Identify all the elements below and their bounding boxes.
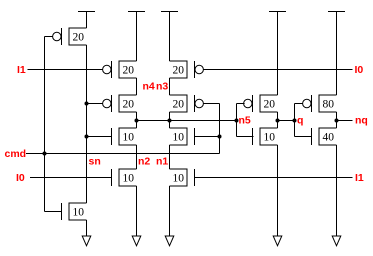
junction cmd with gate feed — [43, 152, 47, 156]
wire node n3 (M7 to M8) — [169, 78, 171, 95]
svg-text:n4: n4 — [143, 81, 155, 93]
junction cmd riser to M9 gate — [218, 135, 222, 139]
wire n5 to M12 gate — [237, 136, 254, 138]
svg-text:40: 40 — [323, 132, 335, 144]
wire M10 gate to I1 (right) — [195, 177, 353, 179]
junction sn to M4 gate — [85, 102, 89, 106]
wire M12 source to ground — [277, 145, 279, 236]
vdd rail supply (column 4) — [269, 11, 286, 13]
vdd rail supply (left inverter) — [78, 11, 95, 13]
junction q at gate feed — [293, 119, 297, 123]
pmos M1 w=20 (cmd inverter pull-up) — [53, 28, 87, 45]
wire M14 source to ground — [336, 145, 338, 236]
wire input I1 to M3 gate bubble — [28, 69, 103, 71]
ground (column 5) — [332, 236, 341, 246]
wire vdd to M1 drain — [86, 12, 88, 29]
pmos M8 w=20 gate cmd — [170, 95, 204, 112]
wire vdd to M11 drain — [277, 12, 279, 96]
svg-text:I0: I0 — [355, 64, 364, 76]
svg-text:20: 20 — [173, 99, 185, 111]
nmos M14 w=40 gate q — [312, 128, 337, 145]
svg-text:10: 10 — [123, 173, 135, 185]
ground (column 2) — [132, 236, 141, 246]
wire M10 source to ground — [169, 186, 171, 236]
svg-text:I0: I0 — [16, 172, 25, 184]
wire cmd to M1 gate bubble — [45, 36, 53, 38]
wire node nq horizontal — [337, 120, 353, 122]
svg-text:10: 10 — [173, 173, 185, 185]
pmos M13 w=80 gate q — [303, 95, 337, 112]
junction n5 at gate feed — [235, 119, 239, 123]
wire cmd riser vertical — [219, 104, 221, 154]
pmos M11 w=20 gate n5 — [244, 95, 278, 112]
wire q to M14 gate — [295, 136, 312, 138]
svg-text:20: 20 — [73, 32, 85, 44]
svg-text:I1: I1 — [355, 172, 364, 184]
nmos M5 w=10 gate sn — [112, 128, 137, 145]
svg-text:10: 10 — [73, 207, 85, 219]
wire node q horizontal — [278, 120, 295, 122]
wire M8 to node n5 junction — [169, 112, 171, 128]
wire cmd riser to M9 gate — [195, 136, 220, 138]
wire M7 gate bubble to I0 (right) — [203, 69, 352, 71]
wire sn to M4 gate bubble — [87, 103, 103, 105]
wire M8 gate bubble to cmd riser — [203, 103, 219, 105]
wire n5 gate feed vertical — [236, 104, 238, 137]
wire node n2 (M5 to M6) — [136, 145, 138, 169]
svg-text:20: 20 — [123, 65, 135, 77]
pmos M4 w=20 gate sn — [103, 95, 137, 112]
pmos M3 w=20 gate I1 — [103, 61, 137, 78]
wire M4 to node n5 junction — [136, 112, 138, 128]
svg-text:80: 80 — [323, 99, 335, 111]
svg-text:n3: n3 — [156, 81, 168, 93]
wire node n4 (M3 to M4) — [136, 78, 138, 95]
svg-text:n2: n2 — [138, 156, 150, 168]
svg-text:q: q — [297, 115, 303, 127]
ground (column 4) — [273, 236, 282, 246]
junction q at column 4 — [276, 119, 280, 123]
wire vdd to M3 drain — [136, 12, 138, 62]
nmos M12 w=10 gate n5 — [253, 128, 278, 145]
vdd rail supply (column 5) — [328, 11, 345, 13]
svg-text:20: 20 — [264, 99, 276, 111]
svg-text:cmd: cmd — [5, 148, 27, 160]
ground (column 3) — [165, 236, 174, 246]
wire q to M13 gate bubble — [295, 103, 303, 105]
nmos M10 w=10 gate I1 — [170, 169, 195, 186]
wire q gate feed vertical — [294, 104, 296, 137]
svg-text:10: 10 — [173, 132, 185, 144]
wire node n1 (M9 to M10) — [169, 145, 171, 169]
vdd rail supply (column 3) — [161, 11, 178, 13]
wire n5 to M11 gate bubble — [237, 103, 245, 105]
wire cmd to M2 gate — [45, 211, 62, 213]
svg-text:10: 10 — [264, 132, 276, 144]
svg-text:10: 10 — [123, 132, 135, 144]
wire node n5 horizontal — [137, 120, 237, 122]
nmos M9 w=10 gate cmd — [170, 128, 195, 145]
junction n5 at column 2 — [135, 119, 139, 123]
svg-text:n5: n5 — [239, 115, 251, 127]
wire vdd to M13 drain — [336, 12, 338, 96]
wire M6 source to ground — [136, 186, 138, 236]
wire M2 source to ground — [86, 220, 88, 236]
svg-text:20: 20 — [173, 65, 185, 77]
svg-text:20: 20 — [123, 99, 135, 111]
wire vdd to M7 drain — [169, 12, 171, 62]
nmos M2 w=10 (cmd inverter pull-down) — [62, 203, 87, 220]
pmos M7 w=20 gate I0 — [170, 61, 204, 78]
svg-text:nq: nq — [355, 115, 368, 127]
svg-text:n1: n1 — [156, 156, 168, 168]
wire node q vertical (M11 to M12) — [277, 112, 279, 128]
wire input cmd horizontal — [26, 153, 220, 155]
wire node sn vertical (M1 source to M2 drain) — [86, 45, 88, 203]
nmos M6 w=10 gate I0 — [112, 169, 137, 186]
svg-text:sn: sn — [89, 156, 101, 168]
svg-text:I1: I1 — [17, 64, 26, 76]
vdd rail supply (column 2) — [128, 11, 145, 13]
wire cmd gate feed vertical — [44, 37, 46, 212]
ground (column 1) — [82, 236, 91, 246]
junction nq at column 5 — [335, 119, 339, 123]
wire input I0 to M6 gate — [30, 177, 112, 179]
junction n5 at column 3 — [168, 119, 172, 123]
wire node nq vertical (M13 to M14) — [336, 112, 338, 128]
junction sn to M5 gate — [85, 135, 89, 139]
wire sn to M5 gate — [87, 136, 112, 138]
